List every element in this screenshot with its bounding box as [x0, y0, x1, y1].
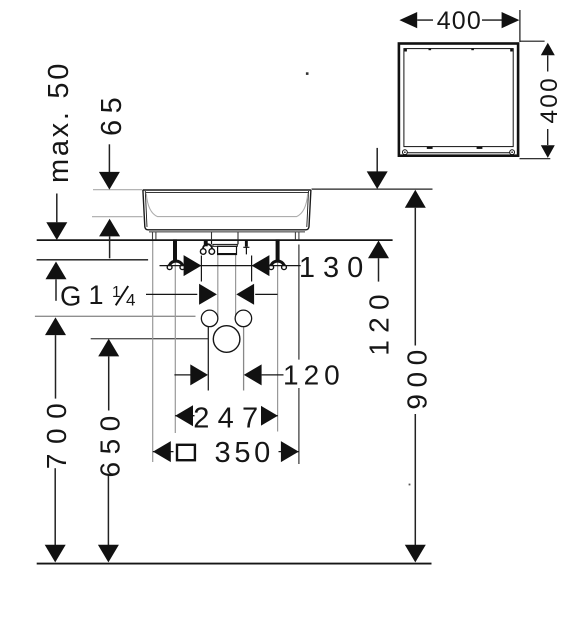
svg-text:350: 350: [215, 437, 275, 469]
washbasin inner bowl line: [146, 194, 307, 217]
svg-text:120: 120: [283, 360, 345, 391]
svg-text:700: 700: [41, 394, 72, 470]
line y338.6 (650 reference): [91, 338, 209, 340]
drain pipe left edge: [217, 255, 219, 318]
dimension 900: [401, 190, 432, 563]
svg-text:65: 65: [96, 91, 128, 136]
mounting line y240: [37, 239, 393, 241]
svg-text:G: G: [60, 281, 81, 312]
drain nut: [218, 246, 237, 254]
svg-text:400: 400: [536, 76, 563, 123]
svg-text:4: 4: [126, 291, 135, 310]
drain stub through apron: [212, 232, 239, 240]
square cabinet front view: [399, 44, 518, 156]
supply pipe left: [207, 327, 209, 391]
right fixing screw: [245, 240, 248, 246]
right fixing bolt: [276, 239, 280, 261]
extension line 247 right: [277, 241, 279, 432]
washbasin right foot: [295, 232, 299, 240]
dimension 65: [96, 91, 128, 259]
wall line left of basin rim (gray): [93, 189, 143, 191]
wall line right of basin rim: [312, 188, 433, 190]
stray speck 1: [306, 72, 309, 75]
left wing nut: [167, 261, 185, 270]
dimension 400 top: [399, 7, 520, 42]
drain stub verticals below mount line: [212, 240, 239, 244]
dimension 650: [95, 339, 126, 563]
dimension 120 horizontal (supply spacing): [174, 360, 344, 391]
drain clip loops: [200, 244, 214, 254]
extension line 350 left: [152, 241, 154, 462]
lower gray line left of basin: [92, 216, 143, 218]
svg-text:120: 120: [364, 287, 395, 356]
extension line 130 right: [251, 256, 253, 282]
svg-text:400: 400: [437, 7, 482, 35]
svg-text:130: 130: [299, 252, 371, 284]
dimension 350 with square symbol: [153, 437, 299, 469]
dimension 700: [41, 317, 72, 562]
extension line 350 right: [298, 245, 300, 465]
left fixing bolt: [173, 239, 177, 261]
supply elbow circle left: [201, 310, 218, 327]
floor line: [37, 563, 432, 565]
supply pipe right: [243, 327, 245, 391]
dimension 247: [175, 403, 278, 435]
washbasin side view outline: [143, 190, 311, 230]
supply elbow circle right: [235, 310, 252, 327]
dimension max. 50: [43, 61, 75, 301]
svg-text:650: 650: [95, 408, 126, 477]
washbasin left foot: [153, 232, 156, 240]
washbasin apron shadow line: [149, 231, 305, 233]
svg-text:1: 1: [89, 280, 104, 310]
extension line 130 left: [200, 256, 202, 282]
dimension 120 vertical (rim to mount line): [364, 148, 395, 356]
extension line 247 left: [174, 241, 176, 433]
right wing nut: [269, 261, 287, 270]
svg-text:900: 900: [401, 343, 432, 410]
dimension 400 right: [520, 41, 564, 159]
dimension G 1 1/4: [60, 280, 278, 312]
dimension 130 (bolt row): [160, 251, 372, 284]
line y316 (700 reference, gray): [35, 315, 196, 317]
line y259.7: [37, 259, 149, 261]
svg-text:max. 50: max. 50: [43, 61, 75, 183]
svg-text:247: 247: [193, 403, 266, 435]
drain tailpiece flange: [213, 244, 237, 246]
stray speck 2: [409, 484, 411, 486]
drain trap circle: [213, 326, 240, 353]
drain clip left stub: [204, 240, 208, 246]
drain pipe right edge: [235, 255, 237, 318]
